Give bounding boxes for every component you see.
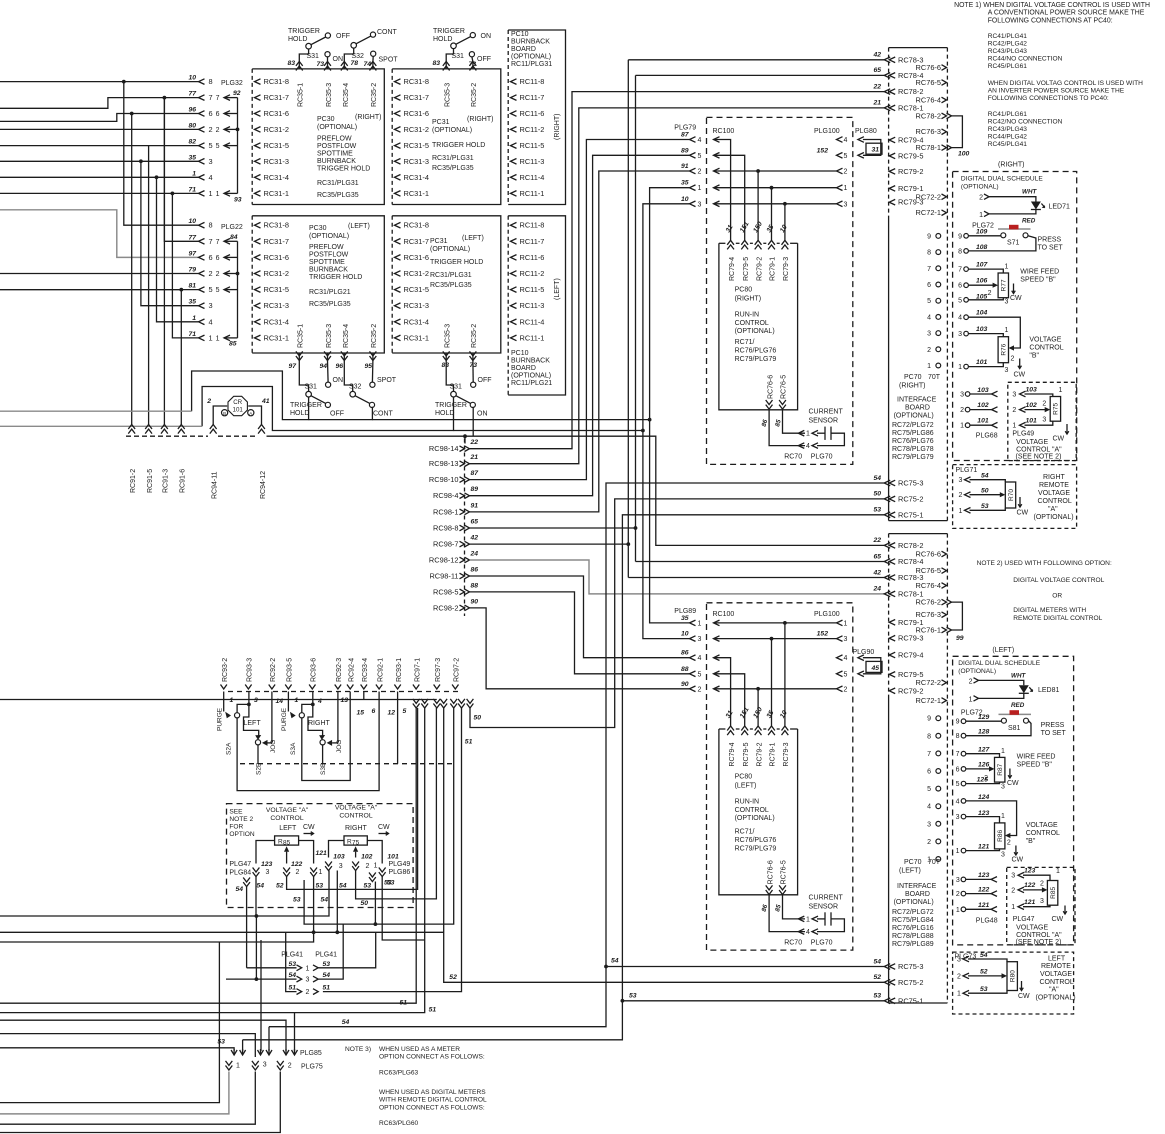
svg-text:FOLLOWING CONNECTIONS AT PC: FOLLOWING CONNECTIONS AT PC40: <box>988 17 1113 24</box>
svg-text:TRIGGER HOLD: TRIGGER HOLD <box>432 142 485 149</box>
switch S3B jog right <box>308 704 323 735</box>
wire 22 net from RC94 row to lower RC78-2 <box>267 436 885 545</box>
wire R75 pin1 down to y940 <box>382 877 425 940</box>
svg-text:RC31-2: RC31-2 <box>404 125 429 134</box>
svg-text:(OPTIONAL): (OPTIONAL) <box>432 127 472 134</box>
svg-text:RC79-4: RC79-4 <box>898 651 923 660</box>
pin RC75-3 lower (wire 54) <box>884 964 890 970</box>
svg-text:RC31-4: RC31-4 <box>404 173 429 182</box>
svg-text:RC31-4: RC31-4 <box>264 317 289 326</box>
svg-text:152: 152 <box>817 631 829 638</box>
svg-text:PLG85: PLG85 <box>300 1050 322 1057</box>
svg-text:RC71/: RC71/ <box>735 339 755 346</box>
svg-text:7: 7 <box>216 239 220 246</box>
svg-text:BURNBACK: BURNBACK <box>511 39 550 46</box>
pin RC75-3 upper (wire 54) <box>884 480 890 486</box>
R85 pin 1 wire 121 <box>299 841 314 864</box>
pin RC31-2 (PC31 right) <box>395 127 401 133</box>
svg-text:1: 1 <box>216 335 220 342</box>
svg-text:2: 2 <box>927 839 931 846</box>
svg-text:OR: OR <box>1052 593 1062 600</box>
svg-text:4: 4 <box>806 443 810 450</box>
svg-text:A CONVENTIONAL POWER SOURCE: A CONVENTIONAL POWER SOURCE MAKE THE <box>988 10 1145 17</box>
pin RC31-4 (PC30 left) <box>255 319 261 325</box>
R75 pin 1 wire 101 <box>367 841 382 864</box>
svg-text:3: 3 <box>1040 898 1044 905</box>
svg-text:LEFT: LEFT <box>244 720 262 727</box>
svg-text:TRIGGER HOLD: TRIGGER HOLD <box>317 166 370 173</box>
svg-text:RC31-3: RC31-3 <box>404 157 429 166</box>
board PC31 (RIGHT) box <box>392 69 501 205</box>
svg-text:PURGE: PURGE <box>281 707 288 731</box>
svg-text:RC78/PLG88: RC78/PLG88 <box>892 933 934 940</box>
svg-text:RC76-6: RC76-6 <box>767 860 774 884</box>
svg-text:9: 9 <box>927 233 931 240</box>
svg-text:RC31-1: RC31-1 <box>264 189 289 198</box>
svg-text:123: 123 <box>261 861 273 868</box>
svg-text:RC44/PLG42: RC44/PLG42 <box>988 134 1028 141</box>
board PC31 (LEFT) box <box>392 216 501 353</box>
svg-text:10: 10 <box>681 631 689 638</box>
short stub RC93-4 column <box>363 692 365 700</box>
svg-text:RC75/PLG84: RC75/PLG84 <box>892 917 934 924</box>
wire 51 horizontal y1012 from left edge to column x426 <box>0 708 425 1013</box>
inner dashed box PLG49 voltage control A right <box>1008 382 1076 460</box>
svg-text:54: 54 <box>611 958 619 965</box>
svg-text:6: 6 <box>216 111 220 118</box>
svg-text:HOLD: HOLD <box>433 36 452 43</box>
connector RC94-12 chevron+label <box>258 425 265 430</box>
svg-text:127: 127 <box>978 747 991 754</box>
wire RC93-1 column down to purge dashed line <box>397 692 399 764</box>
svg-text:CONTROL: CONTROL <box>735 807 769 814</box>
svg-text:RC35-4: RC35-4 <box>343 324 350 348</box>
svg-text:2: 2 <box>216 127 220 134</box>
svg-text:BURNBACK: BURNBACK <box>511 358 550 365</box>
svg-text:RC11-4: RC11-4 <box>520 317 545 326</box>
svg-text:1: 1 <box>230 697 234 704</box>
svg-text:RC31-8: RC31-8 <box>264 221 289 230</box>
svg-text:54: 54 <box>323 972 331 979</box>
svg-text:DIGITAL METERS WITH: DIGITAL METERS WITH <box>1013 607 1086 614</box>
svg-text:54: 54 <box>339 883 347 890</box>
svg-text:RC63/PLG63: RC63/PLG63 <box>379 1069 419 1076</box>
svg-text:3: 3 <box>1042 417 1046 424</box>
svg-text:RC98-10: RC98-10 <box>429 475 459 484</box>
svg-text:PLG47: PLG47 <box>1013 916 1035 923</box>
svg-text:RC45/PLG41: RC45/PLG41 <box>988 141 1028 148</box>
svg-text:75: 75 <box>352 840 360 847</box>
svg-text:3: 3 <box>960 392 964 399</box>
svg-text:PLG49: PLG49 <box>1012 431 1034 438</box>
svg-text:1: 1 <box>698 185 702 192</box>
pin RC79-5 top <box>889 153 895 159</box>
svg-text:RC76-6: RC76-6 <box>767 375 774 399</box>
svg-text:78: 78 <box>350 60 358 67</box>
svg-text:"B": "B" <box>1029 352 1039 359</box>
pin RC31-1 (PC30 left) <box>255 335 261 341</box>
svg-text:104: 104 <box>976 310 988 317</box>
svg-text:RC11-3: RC11-3 <box>520 157 545 166</box>
svg-text:BOARD: BOARD <box>905 405 930 412</box>
svg-text:HOLD: HOLD <box>435 410 454 417</box>
svg-text:4: 4 <box>698 137 702 144</box>
svg-text:2: 2 <box>844 169 848 176</box>
wire 53 line end to fan arrow <box>242 1040 244 1051</box>
svg-text:VOLTAGE: VOLTAGE <box>1016 439 1048 446</box>
svg-text:90: 90 <box>471 598 479 605</box>
svg-text:2: 2 <box>959 492 963 499</box>
svg-text:CONTROL "A": CONTROL "A" <box>1016 932 1062 939</box>
wire 82 row PLG32-5 <box>0 145 199 147</box>
svg-text:LED81: LED81 <box>1038 687 1060 694</box>
svg-text:RC31-7: RC31-7 <box>404 93 429 102</box>
svg-text:RC35/PLG35: RC35/PLG35 <box>432 165 474 172</box>
svg-text:PLG41: PLG41 <box>281 951 303 958</box>
svg-text:PRESS: PRESS <box>1041 722 1065 729</box>
wire S2B down to purge dashed line <box>257 745 259 764</box>
wire horizontal y932 <box>0 931 444 933</box>
svg-text:97: 97 <box>188 250 197 257</box>
svg-text:3: 3 <box>1005 299 1009 306</box>
svg-text:RC63/PLG60: RC63/PLG60 <box>379 1120 419 1127</box>
svg-text:6: 6 <box>927 769 931 776</box>
svg-text:PC70: PC70 <box>904 859 922 866</box>
svg-text:50: 50 <box>474 715 482 722</box>
wire 90 RC98-2 to PLG89 pin 2 <box>470 608 690 689</box>
svg-text:54: 54 <box>873 958 881 965</box>
svg-text:101: 101 <box>976 359 988 366</box>
LED LED81 <box>1019 685 1029 693</box>
svg-text:RC79-5: RC79-5 <box>898 151 923 160</box>
wire JOG col RC92-2 into S2B <box>271 692 273 743</box>
pin RC75-2 upper (wire 50) <box>884 496 890 502</box>
svg-text:RC43/PLG43: RC43/PLG43 <box>988 126 1028 133</box>
wire grey from left edge y411 <box>0 410 192 412</box>
svg-text:1: 1 <box>209 189 213 198</box>
pin RC11-4 (PC10 lower) <box>511 319 517 325</box>
svg-text:JOG: JOG <box>336 740 343 753</box>
svg-text:109: 109 <box>976 228 988 235</box>
svg-text:4: 4 <box>927 804 931 811</box>
svg-text:RC79-4: RC79-4 <box>729 257 736 281</box>
wire 22 riser RC98-14 to top RC78-2 <box>470 92 885 449</box>
svg-text:RC31-5: RC31-5 <box>404 285 429 294</box>
svg-text:RC31-7: RC31-7 <box>264 93 289 102</box>
svg-text:RC11-3: RC11-3 <box>520 301 545 310</box>
wire 10 link PLG79-3 to PLG89-3 <box>643 204 690 639</box>
svg-text:5: 5 <box>956 781 960 788</box>
svg-text:3: 3 <box>958 331 962 338</box>
svg-text:POSTFLOW: POSTFLOW <box>317 143 357 150</box>
wire grey from left edge y426 <box>0 425 202 427</box>
svg-text:RC75-3: RC75-3 <box>898 962 923 971</box>
wire 54 horizontal y916 with junctions <box>0 871 329 917</box>
interface column (right) right boundary <box>946 48 948 521</box>
svg-text:RIGHT: RIGHT <box>308 720 331 727</box>
svg-text:RC91-6: RC91-6 <box>180 469 187 493</box>
svg-text:53: 53 <box>293 897 301 904</box>
svg-text:54: 54 <box>288 972 296 979</box>
pin RC31-3 (PC30 right) <box>255 159 261 165</box>
svg-text:1: 1 <box>927 363 931 370</box>
digital dual schedule (left) dashed box <box>953 656 1074 945</box>
svg-text:97: 97 <box>288 363 297 370</box>
wire horizontal y1033 from left edge to fan pin3 <box>0 1034 255 1057</box>
pin RC31-1 (PC30 right) <box>255 191 261 197</box>
svg-text:128: 128 <box>978 729 990 736</box>
pin RC75-2 lower (wire 52) <box>884 980 890 986</box>
svg-text:RC31/PLG21: RC31/PLG21 <box>309 289 351 296</box>
svg-text:ON: ON <box>477 411 488 418</box>
purge dashed line to RC97-2 column <box>240 763 455 765</box>
svg-text:LEFT: LEFT <box>279 825 297 832</box>
nest return wire pin2 <box>0 1072 280 1133</box>
svg-text:3: 3 <box>956 877 960 884</box>
svg-text:121: 121 <box>978 902 990 909</box>
svg-text:1: 1 <box>844 185 848 192</box>
svg-text:S81: S81 <box>1008 725 1021 732</box>
wire trigger hold net to link 35 vertical <box>372 419 649 421</box>
wire 35 row PLG32-3 <box>0 160 199 162</box>
svg-text:DIGITAL DUAL SCHEDULE: DIGITAL DUAL SCHEDULE <box>961 175 1043 182</box>
pin RC31-4 (PC30 right) <box>255 175 261 181</box>
svg-text:VOLTAGE: VOLTAGE <box>1016 925 1048 932</box>
svg-text:VOLTAGE: VOLTAGE <box>1038 490 1070 497</box>
svg-text:91: 91 <box>681 163 689 170</box>
svg-text:2: 2 <box>698 169 702 176</box>
svg-text:RC11-1: RC11-1 <box>520 333 545 342</box>
wire RC100-4 left to chevron <box>714 658 731 726</box>
svg-text:RC79-1: RC79-1 <box>770 742 777 766</box>
svg-text:RC75-1: RC75-1 <box>898 996 923 1005</box>
svg-text:RIGHT: RIGHT <box>1043 474 1066 481</box>
svg-text:96: 96 <box>188 107 196 114</box>
svg-text:RC11-7: RC11-7 <box>520 237 545 246</box>
pin RC31-2 (PC30 left) <box>255 271 261 277</box>
svg-text:5: 5 <box>958 297 962 304</box>
svg-text:RC98-14: RC98-14 <box>429 444 459 453</box>
svg-text:SENSOR: SENSOR <box>809 904 839 911</box>
nest return wire pin3 <box>0 1072 255 1125</box>
svg-text:OFF: OFF <box>330 411 344 418</box>
pin RC11-7 (PC10 lower) <box>511 239 517 245</box>
svg-text:(RIGHT): (RIGHT) <box>554 114 561 140</box>
svg-text:81: 81 <box>188 283 196 290</box>
pin RC11-8 (PC10 upper) <box>511 79 517 85</box>
svg-text:PLG22: PLG22 <box>221 224 243 231</box>
svg-text:RC31-5: RC31-5 <box>264 141 289 150</box>
svg-text:3: 3 <box>698 201 702 208</box>
svg-text:3: 3 <box>1001 784 1005 791</box>
svg-text:RC35-3: RC35-3 <box>326 83 333 107</box>
svg-text:RC100: RC100 <box>713 128 735 135</box>
svg-text:121: 121 <box>978 843 990 850</box>
svg-text:RC76-5: RC76-5 <box>916 78 941 87</box>
loop wire 45 PLG90 pins 4-5 <box>858 655 864 661</box>
svg-text:3: 3 <box>927 821 931 828</box>
svg-text:PLG70: PLG70 <box>811 454 833 461</box>
svg-text:CW: CW <box>303 824 315 831</box>
interface column (right) top bracket <box>889 47 948 49</box>
svg-text:FOLLOWING CONNECTIONS TO PC: FOLLOWING CONNECTIONS TO PC40: <box>988 95 1109 102</box>
wire RC100-1 row left junction <box>714 622 837 624</box>
pin RC31-7 (PC30 left) <box>255 239 261 245</box>
svg-text:R76: R76 <box>1001 343 1008 355</box>
wire from S31 lower-right pivot to left <box>202 387 453 431</box>
pin RC31-8 (PC31 left) <box>395 222 401 228</box>
svg-text:52: 52 <box>449 974 457 981</box>
wire 21 riser RC98-13 to top RC78-1 <box>470 108 885 464</box>
svg-text:PLG32: PLG32 <box>221 80 243 87</box>
dashed connector row RC91/RC94 <box>126 435 208 437</box>
wire from R75 area down to fan arrow <box>260 940 262 1051</box>
svg-text:53: 53 <box>873 507 881 514</box>
svg-text:80: 80 <box>188 122 196 129</box>
svg-text:53: 53 <box>629 993 637 1000</box>
svg-text:VOLTAGE "A": VOLTAGE "A" <box>266 807 309 814</box>
wire 87 riser RC98-10 to PLG79 pin 4 <box>470 140 690 480</box>
junction col RC93-3 to S2A circle <box>248 692 250 705</box>
svg-text:5: 5 <box>698 153 702 160</box>
pin RC31-4 (PC31 left) <box>395 319 401 325</box>
svg-text:(LEFT): (LEFT) <box>992 647 1014 654</box>
pin RC31-6 (PC30 right) <box>255 111 261 117</box>
pin RC11-5 (PC10 lower) <box>511 287 517 293</box>
svg-text:65: 65 <box>873 67 881 74</box>
svg-text:(OPTIONAL): (OPTIONAL) <box>309 233 349 240</box>
dashed boundary RC98 column <box>464 439 466 617</box>
svg-text:RC93-6: RC93-6 <box>311 658 318 682</box>
svg-text:96: 96 <box>335 363 343 370</box>
svg-text:8: 8 <box>209 77 213 86</box>
wire 10 row PLG32-8 from left edge <box>0 81 199 83</box>
svg-text:1: 1 <box>958 364 962 371</box>
svg-text:RED: RED <box>1011 702 1025 709</box>
svg-text:(OPTIONAL): (OPTIONAL) <box>511 54 551 61</box>
svg-text:RC79-2: RC79-2 <box>756 257 763 281</box>
svg-text:CONTROL: CONTROL <box>270 815 303 822</box>
connector RC91-6 chevron+label <box>178 425 185 430</box>
svg-text:SENSOR: SENSOR <box>809 417 839 424</box>
svg-text:RC98-7: RC98-7 <box>433 540 458 549</box>
svg-text:RC97-3: RC97-3 <box>435 658 442 682</box>
svg-text:CONTROL: CONTROL <box>339 813 372 820</box>
pin RC78-1 top (wire 21) <box>884 105 890 111</box>
svg-text:RC35/PLG35: RC35/PLG35 <box>430 282 472 289</box>
board PC30 (RIGHT) box <box>252 69 384 205</box>
svg-text:S71: S71 <box>1007 240 1020 247</box>
svg-text:99: 99 <box>956 635 964 642</box>
svg-text:71: 71 <box>188 186 196 193</box>
svg-text:RC31-1: RC31-1 <box>404 189 429 198</box>
svg-text:50: 50 <box>873 491 881 498</box>
left bundle vertical RC91-6 <box>0 289 181 291</box>
pin RC11-6 (PC10 upper) <box>511 111 517 117</box>
pin RC11-7 (PC10 upper) <box>511 95 517 101</box>
svg-text:7: 7 <box>927 751 931 758</box>
svg-text:35: 35 <box>188 154 196 161</box>
wire 54 net: upper RC75-3, lower RC75-3, long bottom run <box>269 483 884 1027</box>
svg-text:13: 13 <box>341 697 349 704</box>
svg-text:2: 2 <box>988 290 992 297</box>
wire 51 from RC97 area down to PLG41 row 2 <box>323 708 462 992</box>
svg-text:RC11-5: RC11-5 <box>520 141 545 150</box>
svg-text:SPEED "B": SPEED "B" <box>1020 277 1056 284</box>
svg-text:CURRENT: CURRENT <box>809 895 844 902</box>
svg-text:2: 2 <box>927 347 931 354</box>
connector PLG75 pin 2 chevrons <box>277 1066 284 1071</box>
nest return wire outer <box>0 942 219 1103</box>
svg-text:RC31-1: RC31-1 <box>404 333 429 342</box>
svg-text:RC44/NO CONNECTION: RC44/NO CONNECTION <box>988 56 1063 63</box>
svg-text:74: 74 <box>363 61 371 68</box>
svg-text:73: 73 <box>316 61 324 68</box>
inner dashed box PLG47 voltage control A left <box>1007 867 1075 945</box>
svg-text:CONTROL: CONTROL <box>1026 830 1060 837</box>
pin RC11-2 (PC10 lower) <box>511 271 517 277</box>
svg-text:SPOTTIME: SPOTTIME <box>317 151 353 158</box>
interface column (left) top bracket <box>889 533 948 535</box>
svg-text:RC76-5: RC76-5 <box>781 860 788 884</box>
svg-text:88: 88 <box>681 666 689 673</box>
svg-text:TRIGGER HOLD: TRIGGER HOLD <box>430 259 483 266</box>
svg-text:RC76/PLG76: RC76/PLG76 <box>735 348 777 355</box>
wire S3A common loop to RC92-4 column <box>302 692 350 781</box>
svg-text:5: 5 <box>927 786 931 793</box>
svg-text:RC11-2: RC11-2 <box>520 269 545 278</box>
wire 91 riser RC98-1 to PLG79 pin 2 <box>470 171 690 512</box>
svg-text:RC92-3: RC92-3 <box>336 658 343 682</box>
wire 86 RC76-6 to RC70-4 <box>769 410 805 446</box>
svg-text:53: 53 <box>873 993 881 1000</box>
pin RC11-4 (PC10 upper) <box>511 175 517 181</box>
svg-text:83: 83 <box>287 60 295 67</box>
svg-text:JOG: JOG <box>270 740 277 753</box>
svg-text:53: 53 <box>217 1039 225 1046</box>
svg-text:1: 1 <box>1005 327 1009 334</box>
svg-text:RC31-6: RC31-6 <box>264 109 289 118</box>
switch S2B jog left <box>244 704 259 735</box>
svg-text:1: 1 <box>319 869 323 876</box>
svg-text:21: 21 <box>872 100 881 107</box>
svg-text:RC72/PLG72: RC72/PLG72 <box>892 422 934 429</box>
svg-text:RC98-8: RC98-8 <box>433 524 458 533</box>
svg-text:5: 5 <box>844 153 848 160</box>
wire 80 row PLG32-2 <box>0 128 199 130</box>
svg-text:BURNBACK: BURNBACK <box>309 267 348 274</box>
pin RC31-3 (PC31 right) <box>395 159 401 165</box>
svg-text:RC79-5: RC79-5 <box>743 257 750 281</box>
svg-text:RC31-7: RC31-7 <box>264 237 289 246</box>
wire 77 row PLG32-7 <box>0 98 199 109</box>
svg-text:RC31-6: RC31-6 <box>404 253 429 262</box>
svg-text:SEE: SEE <box>229 809 243 816</box>
svg-text:122: 122 <box>1024 882 1036 889</box>
svg-text:RC31-6: RC31-6 <box>404 109 429 118</box>
svg-text:OFF: OFF <box>477 56 491 63</box>
svg-text:LEFT: LEFT <box>1048 955 1066 962</box>
svg-text:1: 1 <box>698 620 702 627</box>
svg-text:INTERFACE: INTERFACE <box>897 397 937 404</box>
svg-text:CW: CW <box>1014 372 1026 379</box>
connector RC94-11 chevron+label <box>210 425 217 430</box>
svg-text:PLG49: PLG49 <box>389 861 411 868</box>
svg-text:54: 54 <box>342 1019 350 1026</box>
svg-text:7: 7 <box>927 266 931 273</box>
svg-text:103: 103 <box>976 326 988 333</box>
svg-text:RC31-3: RC31-3 <box>404 301 429 310</box>
